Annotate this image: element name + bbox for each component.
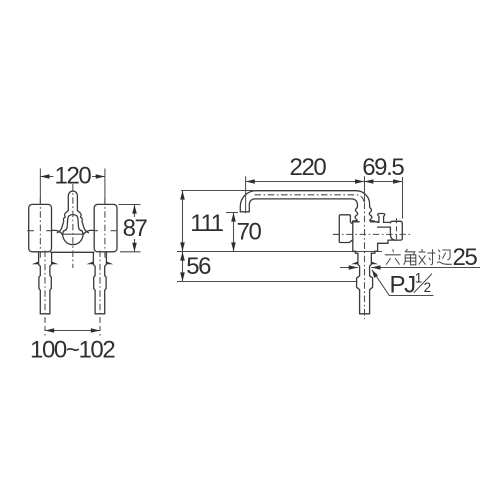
dimension 220 <box>246 154 365 214</box>
dimension 87 <box>119 205 148 252</box>
dimension 70 <box>226 213 262 252</box>
base plate bottom line <box>51 251 94 253</box>
svg-text:69.5: 69.5 <box>362 154 404 181</box>
svg-text:70: 70 <box>237 219 262 246</box>
left leg <box>32 251 59 323</box>
spout outlet bulb (front) <box>63 215 83 245</box>
hex width dimension line (六角対辺25) <box>340 265 480 270</box>
辺 <box>437 250 452 265</box>
dimension 56 <box>180 252 211 282</box>
角 <box>404 249 416 265</box>
svg-text:56: 56 <box>186 253 211 280</box>
svg-text:111: 111 <box>190 210 223 237</box>
counter mounting line <box>177 251 382 253</box>
center vertical centerline (front) <box>72 184 74 268</box>
spout stem (center, front) <box>57 191 88 233</box>
right leg <box>86 251 113 323</box>
right handle centerline <box>104 198 106 258</box>
dimension 100~102 <box>30 318 115 364</box>
swivel crown (bellows) <box>353 207 378 222</box>
body line right (bell to handle) <box>84 230 95 233</box>
right handle <box>94 204 117 251</box>
spout centerline <box>255 195 365 203</box>
body horizontal centerline <box>333 233 412 235</box>
PJ1/2 label with leader <box>372 270 434 299</box>
svg-text:87: 87 <box>123 215 148 242</box>
対 <box>419 249 436 265</box>
left spindle housing (side) <box>333 215 353 243</box>
dimension 111 <box>180 191 257 252</box>
left handle centerline <box>39 198 41 258</box>
svg-text:120: 120 <box>55 163 92 190</box>
dimension 120 <box>40 163 105 204</box>
56 lower datum line <box>177 281 357 283</box>
kanji label 六角対辺25 (drawn strokes) <box>385 249 452 265</box>
svg-text:1: 1 <box>415 271 423 286</box>
svg-text:2: 2 <box>424 280 432 295</box>
svg-text:PJ: PJ <box>390 271 416 298</box>
valve body (side) <box>353 222 378 253</box>
body line left (handle to bell) <box>52 230 63 233</box>
supply pipe (side) <box>351 253 378 314</box>
dimension 69.5 <box>362 154 404 219</box>
六 <box>385 249 401 264</box>
svg-text:100~102: 100~102 <box>30 337 115 364</box>
bulb horizontal centerline <box>61 233 84 235</box>
right outlet elbow <box>378 214 403 244</box>
svg-text:25: 25 <box>453 244 478 271</box>
svg-text:220: 220 <box>290 154 327 181</box>
left handle <box>27 204 51 251</box>
spout tube (side) <box>240 191 369 212</box>
body vertical centerline <box>364 203 366 320</box>
